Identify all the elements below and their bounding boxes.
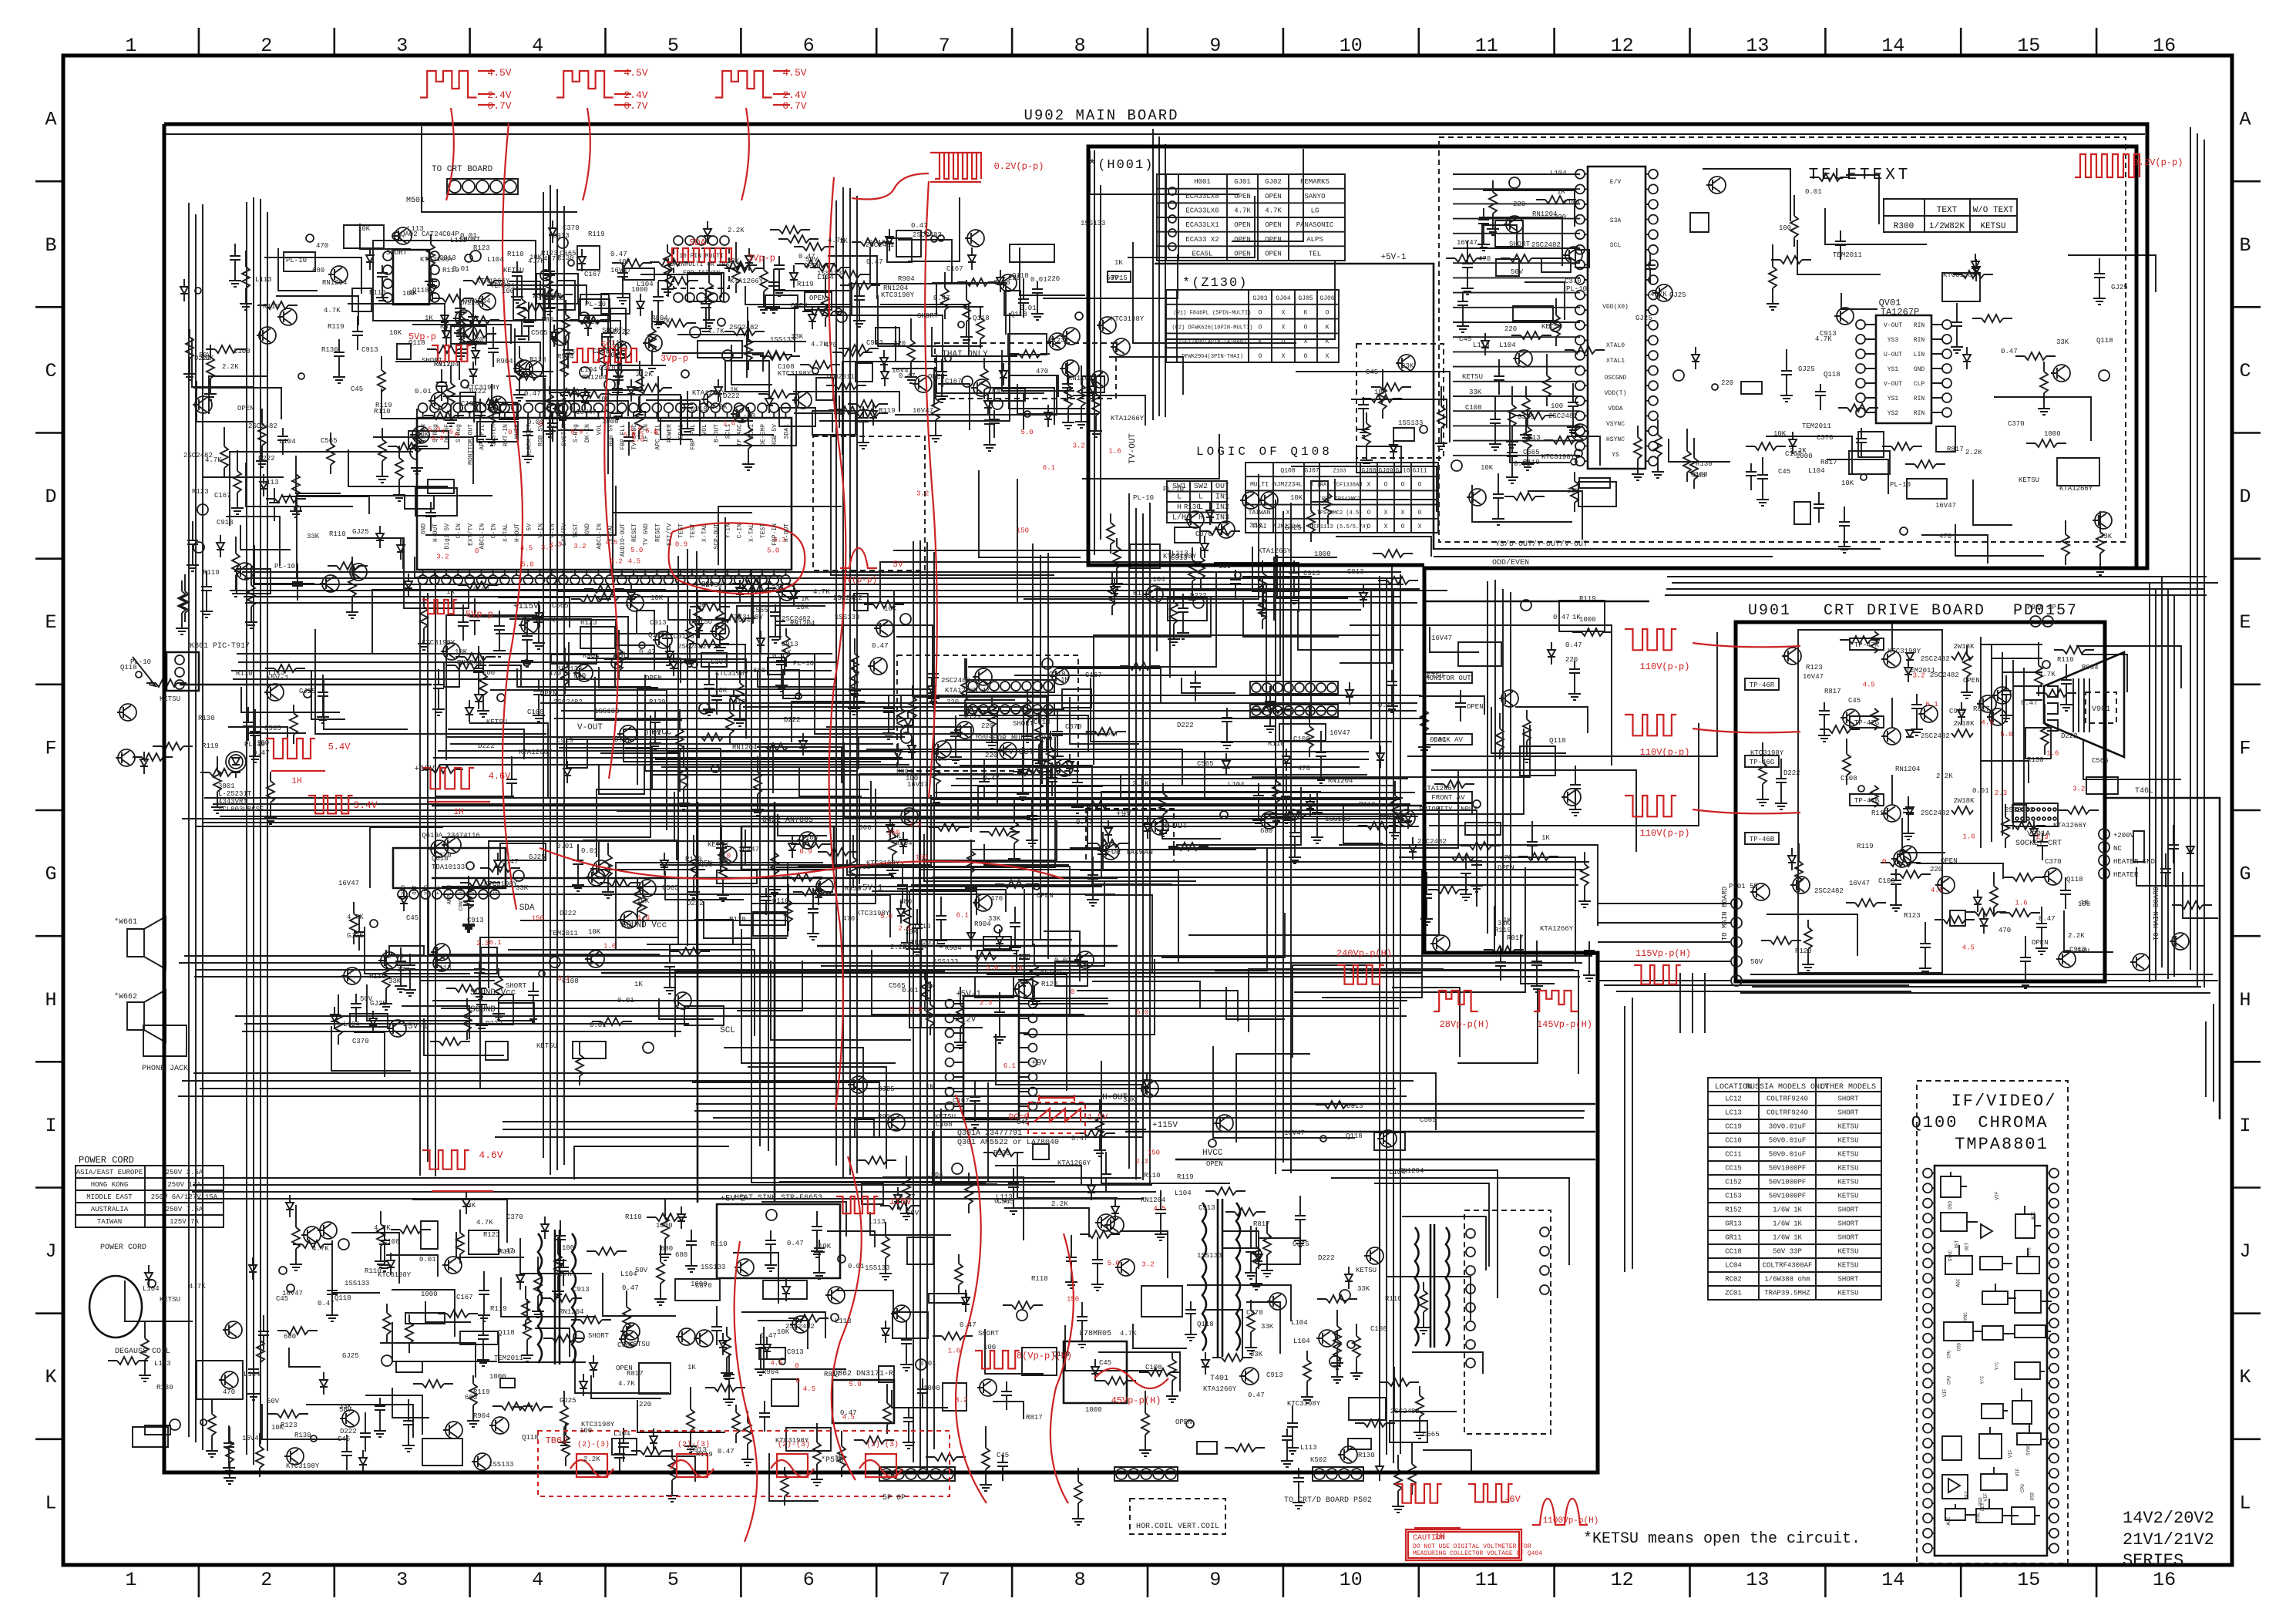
svg-text:C370: C370 — [563, 224, 580, 232]
svg-text:C153: C153 — [1725, 1193, 1742, 1200]
svg-text:145Vp-p(H): 145Vp-p(H) — [1537, 1019, 1592, 1030]
svg-text:C913: C913 — [1347, 568, 1364, 576]
svg-text:GJ25: GJ25 — [352, 528, 369, 536]
svg-text:150: 150 — [1067, 1296, 1079, 1304]
svg-text:RGB 5V: RGB 5V — [771, 424, 778, 446]
svg-text:C45: C45 — [1366, 368, 1378, 376]
svg-text:D222: D222 — [687, 900, 704, 907]
svg-text:GR11: GR11 — [1725, 1234, 1742, 1242]
svg-text:OPEN: OPEN — [1175, 1418, 1192, 1426]
svg-text:OPEN: OPEN — [928, 373, 945, 381]
svg-text:YS1: YS1 — [1888, 366, 1899, 373]
svg-text:33K: 33K — [1123, 1096, 1136, 1104]
svg-text:15: 15 — [2017, 35, 2040, 57]
svg-text:50V: 50V — [1750, 958, 1763, 966]
svg-text:ECA33LX6: ECA33LX6 — [1185, 207, 1219, 215]
svg-text:RN1204: RN1204 — [1399, 1167, 1424, 1175]
svg-text:ZC01: ZC01 — [1725, 1290, 1742, 1297]
svg-text:KETSU: KETSU — [1356, 1267, 1377, 1274]
svg-text:GJ08: GJ08 — [1361, 467, 1376, 474]
svg-text:R110: R110 — [1031, 1275, 1048, 1283]
svg-text:LG: LG — [1311, 207, 1319, 215]
svg-text:VOL: VOL — [701, 424, 708, 436]
svg-text:GJ25: GJ25 — [370, 1000, 387, 1008]
svg-text:R817: R817 — [1820, 459, 1837, 466]
svg-text:33K: 33K — [516, 884, 529, 892]
svg-text:GR13: GR13 — [1725, 1220, 1742, 1228]
svg-text:R817: R817 — [1253, 1220, 1270, 1228]
svg-text:C913: C913 — [553, 232, 570, 240]
svg-text:4: 4 — [532, 1569, 543, 1591]
svg-text:L104: L104 — [580, 366, 597, 374]
svg-text:F: F — [45, 737, 56, 759]
svg-text:C167: C167 — [946, 265, 963, 273]
svg-text:3.2: 3.2 — [436, 554, 449, 561]
svg-text:VIF: VIF — [2015, 1468, 2020, 1476]
svg-text:11: 11 — [1475, 35, 1498, 57]
svg-text:2.2K: 2.2K — [711, 403, 728, 411]
svg-text:5.4V: 5.4V — [328, 742, 351, 752]
svg-text:R123: R123 — [1795, 947, 1812, 955]
svg-text:KETSU: KETSU — [708, 841, 728, 849]
svg-text:1000: 1000 — [1314, 550, 1331, 558]
svg-text:R300: R300 — [1894, 222, 1914, 231]
svg-text:OPEN: OPEN — [616, 1365, 633, 1372]
svg-text:CPU: CPU — [2020, 1484, 2025, 1492]
svg-text:2.3: 2.3 — [980, 999, 992, 1007]
svg-text:KTC3198Y: KTC3198Y — [378, 1271, 412, 1279]
svg-text:B: B — [2239, 234, 2251, 257]
svg-text:0.2V(p-p): 0.2V(p-p) — [994, 161, 1044, 172]
svg-text:EXT/TV: EXT/TV — [467, 523, 474, 546]
svg-text:TA1267P: TA1267P — [1881, 307, 1919, 318]
svg-text:C370: C370 — [352, 1038, 369, 1045]
svg-text:C565: C565 — [675, 658, 692, 666]
svg-text:1K: 1K — [1114, 259, 1123, 267]
svg-text:TV GND: TV GND — [643, 523, 650, 546]
svg-text:EXT/TV: EXT/TV — [667, 523, 674, 546]
svg-text:220: 220 — [1930, 866, 1942, 873]
svg-text:C913: C913 — [439, 254, 456, 262]
svg-text:0.01: 0.01 — [1030, 276, 1047, 284]
svg-text:R110: R110 — [625, 1213, 642, 1221]
svg-text:SHORT: SHORT — [1509, 241, 1531, 248]
svg-text:2.2K: 2.2K — [1936, 772, 1953, 780]
svg-text:Q118: Q118 — [1824, 371, 1840, 379]
svg-text:100: 100 — [1551, 402, 1563, 410]
svg-text:6.1: 6.1 — [1043, 464, 1055, 472]
svg-text:16V47: 16V47 — [282, 1290, 303, 1297]
svg-text:SHORT: SHORT — [917, 312, 939, 320]
svg-text:MONITOR OUT: MONITOR OUT — [467, 424, 474, 465]
svg-text:GJ25: GJ25 — [529, 853, 546, 861]
svg-text:H-OUT: H-OUT — [1162, 822, 1188, 831]
svg-text:110V(p-p): 110V(p-p) — [1640, 828, 1690, 839]
svg-text:4.6V: 4.6V — [489, 771, 512, 782]
svg-text:1V(p-p): 1V(p-p) — [842, 576, 877, 585]
svg-text:PHONE JACK: PHONE JACK — [142, 1065, 188, 1073]
svg-text:DEGAUSS COIL: DEGAUSS COIL — [115, 1348, 170, 1356]
svg-text:+5V-1: +5V-1 — [403, 1022, 429, 1031]
svg-text:2SC2482: 2SC2482 — [1921, 655, 1950, 663]
svg-text:KTC3198Y: KTC3198Y — [1888, 648, 1921, 655]
svg-text:0.01: 0.01 — [1378, 702, 1395, 709]
svg-text:6.1: 6.1 — [1003, 1062, 1016, 1070]
svg-text:0.47: 0.47 — [614, 736, 631, 744]
svg-text:KTC3198Y: KTC3198Y — [422, 639, 456, 647]
svg-text:R119: R119 — [797, 281, 814, 288]
svg-text:MUTE: MUTE — [514, 424, 521, 439]
svg-text:16V47: 16V47 — [1457, 239, 1477, 247]
svg-text:PRIORITY INPUT: PRIORITY INPUT — [1419, 806, 1477, 813]
svg-text:W/O TEXT: W/O TEXT — [1973, 206, 2014, 215]
svg-text:0.47: 0.47 — [869, 239, 886, 247]
svg-text:KTA1266Y: KTA1266Y — [692, 389, 726, 397]
svg-text:PL-10: PL-10 — [793, 660, 814, 668]
svg-text:0.01: 0.01 — [1972, 787, 1989, 795]
svg-text:SHORT: SHORT — [1837, 1206, 1859, 1214]
svg-text:GND: GND — [493, 885, 499, 895]
svg-text:1SS133: 1SS133 — [817, 270, 842, 278]
svg-text:H: H — [1198, 513, 1203, 522]
svg-text:KETSU: KETSU — [1837, 1137, 1858, 1145]
svg-text:A: A — [45, 109, 56, 131]
svg-text:OPEN: OPEN — [1265, 236, 1282, 244]
svg-text:SERIES: SERIES — [2123, 1551, 2183, 1570]
svg-text:1K: 1K — [1541, 834, 1550, 842]
svg-text:TDA10133: TDA10133 — [432, 863, 465, 871]
svg-text:OPEN: OPEN — [1234, 236, 1251, 244]
svg-text:OPEN: OPEN — [809, 294, 826, 302]
svg-text:0.01: 0.01 — [590, 1021, 607, 1029]
svg-text:T46L: T46L — [2135, 787, 2153, 796]
svg-text:C913: C913 — [1949, 708, 1966, 715]
svg-text:33K: 33K — [397, 966, 410, 974]
svg-text:16V47: 16V47 — [338, 880, 359, 887]
svg-text:R904: R904 — [583, 652, 600, 660]
svg-text:GJ09: GJ09 — [1378, 467, 1393, 474]
svg-text:C108: C108 — [936, 1121, 953, 1129]
svg-text:C45: C45 — [1693, 472, 1706, 480]
svg-text:4.5: 4.5 — [631, 430, 644, 438]
svg-text:2SC2482: 2SC2482 — [2005, 806, 2034, 814]
svg-text:R119: R119 — [879, 407, 896, 415]
svg-text:0.47: 0.47 — [2021, 699, 2038, 707]
svg-text:O: O — [1401, 523, 1405, 530]
svg-text:R110: R110 — [711, 1240, 728, 1248]
svg-text:1SS133: 1SS133 — [489, 1461, 513, 1469]
svg-text:4.5: 4.5 — [1931, 887, 1943, 894]
svg-text:RC02: RC02 — [1725, 1276, 1742, 1284]
svg-text:P501 5P: P501 5P — [1729, 883, 1758, 890]
svg-text:+9V: +9V — [1031, 1059, 1047, 1068]
svg-text:R123: R123 — [192, 488, 209, 496]
svg-text:TEM2011: TEM2011 — [490, 282, 519, 290]
svg-text:5V: 5V — [526, 523, 533, 531]
svg-text:2SC2482: 2SC2482 — [1417, 838, 1447, 846]
svg-text:100: 100 — [1779, 224, 1791, 232]
svg-text:4.7K: 4.7K — [2039, 671, 2056, 678]
svg-text:4.5: 4.5 — [1153, 1205, 1165, 1213]
svg-text:KTA1266Y: KTA1266Y — [1203, 1385, 1237, 1393]
svg-text:OSD: OSD — [2029, 1492, 2035, 1500]
svg-text:PL-10: PL-10 — [1566, 285, 1587, 293]
svg-text:0.47: 0.47 — [983, 775, 1000, 782]
svg-text:SYNC: SYNC — [1976, 1512, 1982, 1523]
svg-text:YS/U-OUT/Y-OUT/V-OUT: YS/U-OUT/Y-OUT/V-OUT — [1495, 540, 1588, 549]
svg-text:0.7V: 0.7V — [487, 100, 511, 112]
svg-text:100: 100 — [2078, 900, 2090, 908]
svg-text:L-25231T: L-25231T — [218, 790, 252, 798]
svg-text:0.7V: 0.7V — [624, 100, 647, 112]
svg-text:1K: 1K — [1061, 676, 1069, 684]
svg-text:X-TAL: X-TAL — [503, 523, 509, 542]
svg-text:OPEN: OPEN — [1941, 857, 1958, 865]
svg-text:0.47: 0.47 — [911, 222, 928, 230]
svg-text:0.01: 0.01 — [617, 997, 634, 1004]
svg-text:OPEN: OPEN — [1234, 251, 1251, 258]
svg-text:R119: R119 — [369, 973, 386, 981]
svg-text:L104: L104 — [487, 256, 504, 264]
svg-text:RN1204: RN1204 — [559, 1308, 583, 1316]
svg-text:RN1204: RN1204 — [903, 944, 928, 951]
svg-text:1000: 1000 — [656, 1222, 673, 1230]
svg-text:2.3: 2.3 — [476, 940, 489, 947]
svg-text:R817: R817 — [1026, 1414, 1043, 1422]
svg-text:C370: C370 — [1565, 278, 1582, 285]
svg-text:TAIWAN: TAIWAN — [1249, 510, 1271, 517]
svg-text:10 PIN MULTI: 10 PIN MULTI — [679, 253, 724, 260]
svg-text:1000: 1000 — [855, 824, 872, 832]
svg-text:GJ06: GJ06 — [1319, 295, 1334, 302]
svg-text:O: O — [1304, 353, 1308, 360]
svg-text:7: 7 — [939, 35, 950, 57]
svg-text:KETSU: KETSU — [691, 618, 712, 626]
svg-text:1SS133: 1SS133 — [345, 1280, 369, 1287]
svg-text:SCL: SCL — [600, 339, 617, 350]
svg-text:KETSU: KETSU — [1837, 1123, 1858, 1131]
svg-text:6.1: 6.1 — [773, 537, 785, 544]
svg-text:1.6: 1.6 — [948, 1348, 960, 1355]
svg-text:C913: C913 — [729, 698, 746, 706]
svg-text:C: C — [45, 360, 56, 382]
svg-text:4.5: 4.5 — [628, 558, 640, 566]
svg-text:KTC3198Y: KTC3198Y — [778, 370, 812, 378]
svg-text:KTC3198Y: KTC3198Y — [730, 614, 764, 621]
svg-text:33K: 33K — [1401, 362, 1414, 370]
svg-text:LOGIC OF Q108: LOGIC OF Q108 — [1196, 445, 1333, 459]
svg-text:30V0.01uF: 30V0.01uF — [1769, 1123, 1807, 1131]
svg-text:X: X — [1282, 353, 1286, 360]
svg-text:2SC2482: 2SC2482 — [248, 422, 277, 430]
svg-text:10K: 10K — [1290, 494, 1303, 502]
svg-text:Q301 AN5522 or LA78040: Q301 AN5522 or LA78040 — [957, 1139, 1059, 1147]
svg-text:1/6W388 ohm: 1/6W388 ohm — [1764, 1276, 1810, 1284]
svg-text:O: O — [1259, 353, 1262, 360]
svg-text:2.4V: 2.4V — [624, 89, 647, 101]
svg-text:470: 470 — [990, 895, 1003, 903]
svg-text:1.6: 1.6 — [723, 419, 735, 427]
svg-text:470: 470 — [1298, 765, 1310, 772]
svg-text:OPEN: OPEN — [1037, 892, 1054, 900]
svg-text:RN1204: RN1204 — [457, 659, 482, 667]
svg-text:C167: C167 — [584, 271, 601, 278]
svg-text:C167: C167 — [953, 1097, 970, 1105]
svg-text:16: 16 — [2153, 35, 2176, 57]
svg-text:KTA1266Y: KTA1266Y — [519, 749, 553, 756]
svg-text:Q118: Q118 — [1549, 737, 1566, 745]
svg-text:C565: C565 — [321, 437, 338, 445]
svg-text:16V47: 16V47 — [242, 1435, 263, 1442]
svg-text:R119: R119 — [1177, 1173, 1194, 1181]
svg-text:1K: 1K — [425, 315, 433, 322]
svg-text:0.47: 0.47 — [718, 1448, 735, 1455]
svg-text:TEM2011: TEM2011 — [1833, 251, 1862, 259]
svg-text:CPU: CPU — [1947, 1376, 1952, 1385]
svg-text:GJ25: GJ25 — [342, 1352, 359, 1360]
svg-text:O: O — [1282, 338, 1286, 345]
svg-text:R119: R119 — [1579, 595, 1596, 603]
svg-text:1SS133: 1SS133 — [865, 1264, 889, 1272]
svg-text:(R2) DFWK626(10PIN-MULTI): (R2) DFWK626(10PIN-MULTI) — [1172, 325, 1252, 331]
svg-text:0.01: 0.01 — [1514, 460, 1531, 468]
svg-text:GJ11: GJ11 — [1412, 467, 1427, 474]
svg-text:LC13: LC13 — [1725, 1109, 1742, 1117]
svg-text:9: 9 — [1209, 35, 1221, 57]
svg-text:125V 7A: 125V 7A — [170, 1218, 199, 1226]
svg-text:4: 4 — [532, 35, 543, 57]
svg-text:2W18K: 2W18K — [1953, 797, 1975, 805]
svg-text:D222: D222 — [486, 1020, 503, 1028]
svg-text:(RA) TCF1338AM: (RA) TCF1338AM — [1317, 483, 1363, 489]
svg-text:RN1204: RN1204 — [1141, 1196, 1165, 1204]
svg-text:TO CRT BOARD: TO CRT BOARD — [432, 165, 493, 174]
svg-text:2SC2482: 2SC2482 — [183, 452, 213, 459]
svg-text:110V(p-p): 110V(p-p) — [1640, 747, 1690, 758]
svg-text:4.7K: 4.7K — [347, 914, 364, 921]
svg-text:GJ01: GJ01 — [1234, 178, 1251, 186]
svg-text:OPEN: OPEN — [1498, 864, 1514, 872]
svg-text:RIN: RIN — [1914, 410, 1925, 417]
svg-text:16V47: 16V47 — [1284, 1129, 1305, 1137]
svg-text:GJ25: GJ25 — [299, 688, 316, 695]
svg-text:33K: 33K — [463, 1202, 476, 1210]
svg-text:C108: C108 — [1293, 735, 1310, 743]
svg-text:+12V: +12V — [956, 1015, 977, 1025]
svg-text:470: 470 — [316, 242, 328, 250]
svg-text:SYNC: SYNC — [1948, 1250, 1954, 1261]
svg-text:CC11: CC11 — [1725, 1151, 1742, 1159]
svg-text:1.6: 1.6 — [1962, 833, 1975, 841]
svg-text:C152: C152 — [1725, 1179, 1742, 1186]
svg-text:1000: 1000 — [489, 1373, 506, 1381]
svg-text:28Vp-p(H): 28Vp-p(H) — [1440, 1019, 1490, 1030]
svg-text:2SC2482: 2SC2482 — [913, 231, 942, 239]
svg-text:CC19: CC19 — [1725, 1123, 1742, 1131]
svg-text:(2)-(3): (2)-(3) — [677, 1440, 710, 1449]
svg-text:1K: 1K — [926, 983, 935, 991]
svg-text:R817: R817 — [1973, 705, 1990, 713]
svg-text:VDD(T): VDD(T) — [1605, 390, 1627, 397]
svg-text:33K: 33K — [388, 978, 402, 985]
svg-text:RIN: RIN — [1914, 395, 1925, 402]
svg-text:KETSU: KETSU — [160, 1296, 180, 1304]
svg-text:C-IN: C-IN — [491, 523, 498, 538]
svg-text:R110: R110 — [507, 251, 524, 258]
svg-text:D222: D222 — [1783, 769, 1800, 777]
svg-text:5.0: 5.0 — [1108, 1260, 1120, 1267]
svg-text:3Vp-p: 3Vp-p — [661, 353, 688, 364]
svg-text:RN1204: RN1204 — [1068, 375, 1093, 382]
svg-text:C108: C108 — [527, 708, 544, 716]
svg-text:KTA1266Y: KTA1266Y — [1111, 415, 1145, 422]
svg-text:TB62: TB62 — [546, 1435, 568, 1446]
svg-text:LC04: LC04 — [1725, 1262, 1742, 1270]
svg-text:SDA: SDA — [689, 237, 706, 248]
svg-text:GJ25: GJ25 — [2111, 284, 2128, 291]
svg-text:K: K — [1326, 338, 1330, 345]
svg-text:R110: R110 — [563, 388, 580, 395]
svg-text:10K: 10K — [777, 1328, 790, 1336]
svg-text:D222: D222 — [258, 455, 275, 463]
svg-text:R130: R130 — [2027, 756, 2044, 764]
svg-text:0.01: 0.01 — [581, 847, 598, 855]
svg-text:16V47: 16V47 — [907, 781, 928, 789]
svg-text:2SC2482: 2SC2482 — [533, 292, 562, 300]
svg-text:D222: D222 — [1177, 722, 1194, 729]
svg-text:C370: C370 — [2045, 858, 2062, 866]
svg-text:1.6: 1.6 — [1108, 447, 1121, 455]
svg-text:X: X — [1286, 510, 1290, 517]
svg-text:680: 680 — [573, 672, 586, 680]
svg-text:0.01: 0.01 — [415, 388, 432, 395]
svg-text:2SC2482: 2SC2482 — [1921, 732, 1950, 740]
svg-text:L104: L104 — [711, 658, 728, 666]
svg-text:KTC3198Y: KTC3198Y — [715, 670, 749, 678]
svg-text:H001: H001 — [1194, 178, 1211, 186]
svg-text:13: 13 — [1746, 1569, 1769, 1591]
svg-text:R817: R817 — [434, 361, 451, 368]
svg-text:MUTE: MUTE — [550, 424, 556, 439]
svg-text:9: 9 — [1209, 1569, 1221, 1591]
svg-text:R904: R904 — [762, 1368, 779, 1376]
svg-text:1SS133: 1SS133 — [1197, 1252, 1222, 1260]
svg-text:10K: 10K — [819, 1243, 832, 1250]
svg-text:R110: R110 — [1268, 740, 1285, 748]
svg-text:SHORT: SHORT — [978, 1330, 1000, 1338]
svg-text:C913: C913 — [573, 1286, 590, 1294]
svg-text:TEST: TEST — [690, 523, 697, 538]
svg-text:TSF1248P(4PIN-TAIWAN): TSF1248P(4PIN-TAIWAN) — [1178, 339, 1246, 345]
svg-text:1K: 1K — [718, 857, 726, 865]
svg-text:150: 150 — [916, 854, 928, 862]
svg-text:Q118: Q118 — [498, 1329, 515, 1337]
svg-text:3: 3 — [396, 1569, 408, 1591]
svg-text:33K: 33K — [1250, 1351, 1263, 1358]
svg-text:2: 2 — [261, 1569, 272, 1591]
svg-text:O: O — [1259, 324, 1262, 331]
svg-text:C565: C565 — [531, 329, 548, 337]
svg-text:0.01: 0.01 — [1430, 736, 1447, 744]
svg-text:B-OUT: B-OUT — [713, 424, 720, 443]
svg-text:HEAT SINK STR-F6653: HEAT SINK STR-F6653 — [735, 1194, 822, 1203]
svg-text:C565: C565 — [662, 884, 679, 892]
svg-text:MIDDLE EAST: MIDDLE EAST — [86, 1193, 133, 1201]
svg-text:470: 470 — [1478, 255, 1491, 263]
svg-text:ODD/EVEN: ODD/EVEN — [1492, 558, 1529, 567]
svg-text:C565: C565 — [889, 982, 906, 990]
svg-text:4.7K: 4.7K — [1650, 291, 1667, 298]
